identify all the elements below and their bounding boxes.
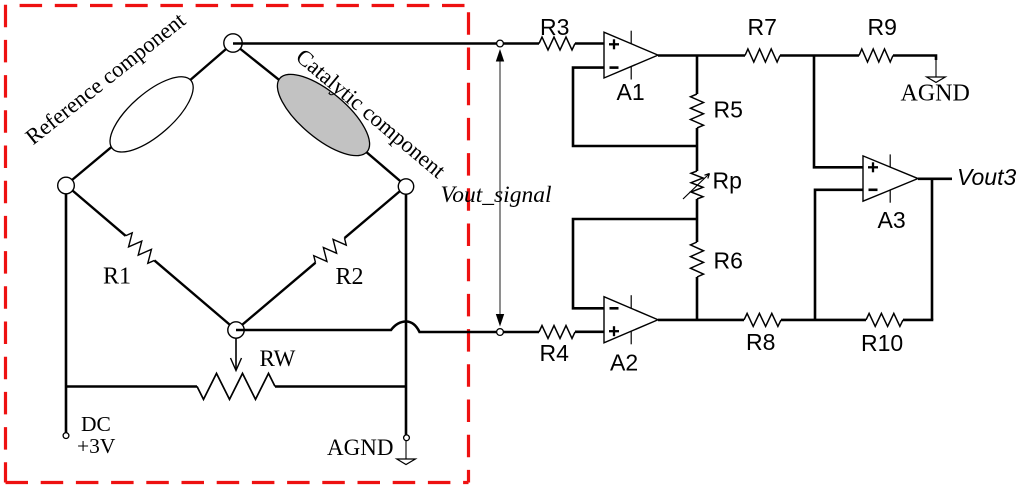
- svg-text:AGND: AGND: [901, 81, 970, 107]
- resistor R4: [539, 326, 575, 339]
- svg-text:Vout3: Vout3: [957, 164, 1016, 190]
- wire: top node to reference component: [151, 43, 233, 114]
- AGND right ground symbol: [935, 58, 937, 77]
- wire: R7 junction down to A3 + input: [814, 56, 863, 168]
- wire: R5 to Rp: [696, 128, 699, 171]
- node: bridge right: [398, 179, 413, 194]
- wire: RW rail right: [275, 385, 406, 388]
- sensor-module boundary: right edge (red dashed): [467, 12, 470, 482]
- svg-text:R8: R8: [746, 329, 775, 355]
- sensor-module boundary: bottom edge (red dashed): [6, 481, 469, 484]
- wire: A2 - feedback loop: [573, 219, 697, 308]
- wire: A3 feedback vertical: [931, 179, 934, 320]
- wire: R1 to bottom node: [154, 260, 236, 330]
- wire: left bridge leg (to DC +3V): [65, 194, 68, 433]
- wire: bottom node to R2: [236, 263, 316, 330]
- svg-text:R3: R3: [540, 14, 569, 40]
- wire: Rp to R6 (A2 feedback junction): [696, 199, 699, 242]
- node circle on top wire: [497, 40, 504, 47]
- AGND bridge terminal circle: [404, 435, 410, 441]
- wire: A2 output to R8: [658, 319, 744, 322]
- catalytic component (gray ellipse): [265, 61, 382, 170]
- svg-text:R2: R2: [336, 264, 364, 290]
- op-amp A3: [863, 156, 918, 201]
- wire: reference component to left node: [66, 114, 151, 185]
- svg-text:DC: DC: [81, 412, 111, 436]
- wire: right bridge leg (to AGND): [405, 194, 408, 435]
- svg-text:R5: R5: [714, 97, 743, 123]
- node circle on bottom wire: [497, 329, 504, 336]
- wire: R2 to right node: [345, 186, 407, 238]
- potentiometer Rp zigzag: [691, 171, 703, 199]
- wire: A3 - input to R8/R10 junction: [815, 190, 863, 320]
- svg-text:AGND: AGND: [327, 435, 393, 460]
- arrowhead up: [496, 49, 504, 62]
- svg-text:+3V: +3V: [77, 434, 116, 458]
- wire: R9 to AGND corner: [893, 56, 936, 61]
- svg-text:R9: R9: [868, 14, 897, 40]
- arrowhead down: [496, 314, 504, 327]
- reference component (white ellipse): [99, 64, 205, 164]
- op-amp A2: [604, 297, 658, 343]
- wire: R10 to A3 feedback corner: [903, 319, 933, 322]
- wire: R8 to R10 segment: [781, 319, 866, 322]
- resistor R7: [745, 49, 780, 62]
- wire: A3 output to Vout3: [918, 178, 952, 181]
- resistor R5: [691, 94, 704, 128]
- resistor R9: [859, 49, 893, 62]
- wire: top node to catalytic component: [233, 43, 323, 115]
- sensor-module boundary: top edge (red dashed): [20, 4, 469, 7]
- RW wiper arrow: [235, 338, 237, 369]
- node: bridge left: [58, 177, 75, 194]
- DC +3V terminal circle: [63, 433, 69, 439]
- wire: bottom node to hop and R4: [236, 322, 539, 333]
- op-amp A1: [604, 32, 658, 78]
- resistor R10: [866, 313, 903, 326]
- resistor R2 zigzag: [311, 233, 348, 267]
- node: bridge top: [224, 34, 242, 52]
- wire: A1 - feedback loop: [573, 68, 697, 146]
- AGND bridge ground symbol: [405, 441, 407, 459]
- svg-text:R1: R1: [103, 264, 131, 290]
- wire: left node to R1: [66, 185, 126, 236]
- wire: catalytic component to right node: [323, 115, 406, 186]
- wire: R4 to A2 + input: [575, 330, 604, 333]
- svg-text:RW: RW: [260, 346, 296, 371]
- wire: RW rail left: [66, 385, 197, 388]
- svg-text:R4: R4: [540, 340, 570, 366]
- sensor-module boundary: left edge (red dashed): [4, 5, 7, 483]
- resistor R3: [539, 37, 575, 50]
- wire: R7 to R9 segment: [780, 54, 859, 57]
- svg-text:A2: A2: [610, 350, 638, 376]
- potentiometer RW zigzag: [197, 373, 275, 399]
- wire: A1 output: [658, 54, 745, 57]
- svg-text:R6: R6: [714, 248, 743, 274]
- wire: R6 to A2 output rail: [696, 277, 699, 320]
- Vout_signal measurement line: [499, 58, 501, 318]
- resistor R6: [691, 242, 704, 277]
- svg-text:A1: A1: [617, 79, 645, 105]
- wire: R3 to A1 + input: [575, 42, 604, 45]
- svg-text:Vout_signal: Vout_signal: [441, 182, 552, 208]
- node: bridge bottom: [228, 322, 244, 338]
- svg-text:R7: R7: [748, 14, 777, 40]
- wire: top node to R3: [233, 42, 539, 45]
- svg-text:Rp: Rp: [713, 168, 742, 194]
- resistor R8: [744, 313, 781, 326]
- svg-text:A3: A3: [878, 207, 906, 233]
- wire: chain top (A1 out junction to R5): [696, 56, 699, 95]
- potentiometer Rp arrow: [683, 174, 710, 200]
- resistor R1 zigzag: [121, 231, 158, 266]
- svg-text:R10: R10: [861, 330, 903, 356]
